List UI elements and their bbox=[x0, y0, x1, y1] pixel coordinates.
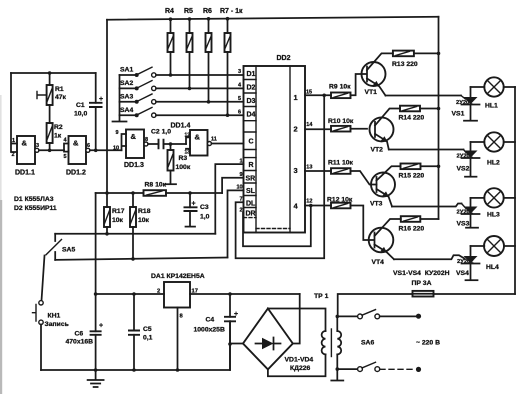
wire +5V top rail bbox=[107, 17, 439, 20]
lamp HL4 bbox=[471, 236, 516, 271]
wire DD1.4 out to DD2 C pin bbox=[212, 143, 244, 145]
svg-text:DA1 КР142ЕН5А: DA1 КР142ЕН5А bbox=[151, 273, 205, 280]
transistor VT4 bbox=[369, 219, 401, 266]
pushbutton KH1 Запись bbox=[33, 301, 69, 370]
svg-text:47к: 47к bbox=[55, 94, 67, 101]
svg-text:DD2: DD2 bbox=[277, 55, 291, 62]
svg-text:R14 220: R14 220 bbox=[399, 115, 425, 122]
svg-text:R7 - 1к: R7 - 1к bbox=[220, 8, 243, 15]
transistor VT1 bbox=[362, 53, 393, 96]
svg-text:С4: С4 bbox=[206, 317, 215, 324]
wire oscillator top rail bbox=[11, 72, 96, 74]
resistor R14 bbox=[399, 106, 441, 122]
svg-text:SA1: SA1 bbox=[120, 67, 133, 74]
svg-text:R15 220: R15 220 bbox=[399, 173, 425, 180]
svg-text:HL1: HL1 bbox=[485, 103, 498, 110]
svg-text:D2: D2 bbox=[247, 85, 256, 92]
svg-text:R: R bbox=[249, 162, 254, 169]
svg-text:R10 10к: R10 10к bbox=[328, 118, 354, 125]
svg-text:R11 10к: R11 10к bbox=[328, 160, 354, 167]
resistor R4 bbox=[165, 8, 174, 75]
resistor R12 bbox=[327, 197, 374, 241]
ground SA1-SA4 bbox=[113, 121, 127, 123]
gate DD1.2 bbox=[64, 136, 91, 177]
capacitor C2 bbox=[148, 129, 186, 150]
switch SA1 bbox=[120, 67, 244, 78]
wire DD2 output 1 row bbox=[305, 94, 331, 96]
wire DD2 output 4 row bbox=[305, 205, 331, 207]
svg-text:SL: SL bbox=[246, 188, 256, 195]
transistor VT2 bbox=[370, 109, 401, 154]
scan edge smudge bbox=[0, 200, 2, 394]
svg-text:R1: R1 bbox=[55, 86, 64, 93]
svg-text:R4: R4 bbox=[165, 8, 174, 15]
svg-text:R3: R3 bbox=[179, 155, 188, 162]
svg-text:1: 1 bbox=[294, 93, 298, 102]
svg-text:&: & bbox=[131, 132, 137, 141]
wire ground bus bbox=[41, 321, 230, 370]
node rail junctions bbox=[169, 17, 173, 21]
svg-text:DD1.2: DD1.2 bbox=[66, 170, 86, 177]
svg-text:R9 10к: R9 10к bbox=[329, 84, 351, 91]
svg-text:DD1.3: DD1.3 bbox=[124, 162, 144, 169]
svg-text:5: 5 bbox=[64, 154, 67, 160]
svg-text:11: 11 bbox=[211, 137, 217, 143]
svg-text:С3: С3 bbox=[200, 204, 209, 211]
wire DD1.1 input drop bbox=[11, 73, 17, 152]
regulator DA1 КР142ЕН5А bbox=[96, 273, 300, 372]
wire +5V column from DA1 bbox=[95, 193, 97, 331]
capacitor C3 bbox=[184, 193, 210, 227]
svg-text:6: 6 bbox=[238, 110, 241, 116]
svg-text:Запись: Запись bbox=[45, 321, 69, 328]
wire SL line (to SA5) bbox=[55, 258, 227, 260]
svg-text:VS4: VS4 bbox=[456, 270, 469, 277]
wire DD2 SR pin bbox=[222, 178, 243, 193]
svg-text:10к: 10к bbox=[138, 217, 150, 224]
svg-text:D1 К555ЛА3: D1 К555ЛА3 bbox=[14, 196, 54, 203]
svg-text:8: 8 bbox=[145, 137, 148, 143]
wire mains top line with fuse bbox=[338, 294, 515, 316]
svg-text:SA2: SA2 bbox=[120, 80, 133, 87]
svg-text:VS3: VS3 bbox=[457, 221, 470, 228]
wire R line (to SA5) bbox=[55, 233, 215, 235]
svg-text:DD1.4: DD1.4 bbox=[171, 123, 191, 130]
thyristor VS2 bbox=[457, 142, 480, 177]
svg-text:VD1-VD4: VD1-VD4 bbox=[285, 357, 314, 364]
wire SA common bbox=[119, 75, 121, 121]
wire DD1.2 out to DD1.3 in bbox=[90, 149, 122, 151]
wire VT1 emitter to VS1 gate bbox=[386, 95, 462, 97]
svg-text:С1: С1 bbox=[76, 102, 85, 109]
resistor R5 bbox=[184, 8, 193, 88]
svg-text:R17: R17 bbox=[112, 208, 125, 215]
svg-text:R16 220: R16 220 bbox=[399, 226, 425, 233]
svg-text:SR: SR bbox=[246, 176, 256, 183]
resistor R10 bbox=[328, 118, 367, 132]
gate DD1.1 bbox=[15, 136, 39, 177]
svg-text:КД226: КД226 bbox=[290, 365, 311, 372]
resistor R13 bbox=[392, 51, 440, 68]
svg-text:С6: С6 bbox=[75, 331, 84, 338]
bridge rectifier VD1-VD4 bbox=[230, 294, 313, 372]
svg-text:SA6: SA6 bbox=[361, 340, 374, 347]
switch SA2 bbox=[120, 80, 244, 91]
transistor VT3 bbox=[370, 166, 401, 207]
svg-text:9: 9 bbox=[116, 130, 119, 136]
svg-text:C: C bbox=[249, 139, 254, 146]
resistor R8 bbox=[96, 182, 223, 196]
svg-text:10: 10 bbox=[113, 146, 119, 152]
wire collector supply bus bbox=[438, 17, 440, 219]
svg-text:R6: R6 bbox=[203, 8, 212, 15]
svg-text:VS2: VS2 bbox=[457, 166, 470, 173]
svg-text:DR: DR bbox=[246, 211, 256, 218]
svg-text:VS1: VS1 bbox=[452, 111, 465, 118]
svg-text:5: 5 bbox=[238, 96, 241, 102]
thyristor VS4 bbox=[456, 246, 480, 280]
svg-text:6: 6 bbox=[87, 143, 90, 149]
resistor R15 bbox=[399, 164, 441, 180]
svg-text:DD1.1: DD1.1 bbox=[15, 170, 35, 177]
wire DD2 SL pin bbox=[228, 190, 244, 257]
switch SA6 lower pole bbox=[337, 362, 421, 372]
svg-text:100к: 100к bbox=[176, 164, 191, 171]
svg-text:HL2: HL2 bbox=[487, 160, 500, 167]
wire DD2 output 2 row bbox=[305, 128, 331, 130]
svg-text:VS1-VS4 КУ202Н: VS1-VS4 КУ202Н bbox=[393, 270, 450, 277]
switch SA4 bbox=[120, 107, 244, 117]
svg-text:+: + bbox=[99, 323, 103, 330]
svg-text:D2 К555ИР11: D2 К555ИР11 bbox=[14, 205, 57, 212]
switch SA6 upper pole bbox=[337, 310, 421, 347]
wire +5V left drop (rail to R17 column) bbox=[106, 20, 108, 193]
gate DD1.3 bbox=[113, 130, 148, 170]
svg-text:0,1: 0,1 bbox=[143, 335, 153, 342]
svg-text:HL3: HL3 bbox=[487, 212, 500, 219]
resistor R9 bbox=[329, 74, 367, 98]
wire lamp right bus bbox=[514, 87, 516, 294]
svg-text:С5: С5 bbox=[143, 326, 152, 333]
svg-text:1: 1 bbox=[12, 138, 15, 144]
resistor R7 bbox=[220, 8, 243, 115]
svg-text:12: 12 bbox=[306, 199, 312, 205]
svg-text:VT3: VT3 bbox=[370, 201, 383, 208]
svg-text:3: 3 bbox=[294, 166, 298, 175]
svg-text:3: 3 bbox=[238, 69, 241, 75]
thyristor VS1 bbox=[452, 87, 480, 121]
transformer TP1 bbox=[268, 293, 343, 381]
svg-text:2: 2 bbox=[12, 152, 15, 158]
wire VT4 emitter to VS4 gate bbox=[394, 255, 465, 259]
svg-text:1к: 1к bbox=[54, 133, 62, 140]
wire VT2 emitter to VS2 gate bbox=[389, 149, 464, 151]
resistor R3 bbox=[166, 144, 191, 184]
switch SA3 bbox=[120, 94, 244, 105]
IC DD2 К555ИР11 bbox=[237, 55, 314, 233]
lamp HL2 bbox=[471, 132, 516, 166]
resistor R17 bbox=[104, 193, 125, 236]
svg-text:ТР 1: ТР 1 bbox=[314, 293, 329, 300]
svg-text:КН1: КН1 bbox=[48, 313, 61, 320]
svg-text:13: 13 bbox=[306, 165, 312, 171]
svg-text:10,0: 10,0 bbox=[74, 111, 87, 118]
svg-text:D4: D4 bbox=[247, 112, 256, 119]
capacitor C4 bbox=[194, 292, 239, 370]
ground main bbox=[88, 370, 104, 387]
svg-text:470х16В: 470х16В bbox=[66, 339, 94, 346]
svg-text:3: 3 bbox=[36, 143, 39, 149]
svg-text:R5: R5 bbox=[184, 8, 193, 15]
wire DD2 R pin bbox=[215, 164, 243, 234]
svg-text:VT1: VT1 bbox=[365, 89, 378, 96]
svg-text:2: 2 bbox=[294, 125, 298, 134]
fuse ПР 3А bbox=[412, 280, 434, 297]
svg-text:R2: R2 bbox=[54, 124, 63, 131]
svg-text:SA5: SA5 bbox=[62, 247, 75, 254]
svg-text:14: 14 bbox=[306, 122, 313, 128]
svg-text:2: 2 bbox=[240, 208, 243, 214]
gate DD1.4 bbox=[171, 123, 217, 156]
svg-text:DL: DL bbox=[246, 201, 256, 208]
resistor R16 bbox=[399, 216, 439, 232]
wire DD2 DR pin feedback to output 4 bbox=[243, 206, 311, 247]
wire VT3 emitter to VS3 gate bbox=[392, 204, 462, 207]
svg-text:С2 1,0: С2 1,0 bbox=[151, 129, 171, 136]
lamp HL1 bbox=[471, 77, 516, 109]
switch SA5 bbox=[42, 234, 76, 301]
resistor R18 bbox=[130, 193, 151, 261]
resistor R1 (preset) bbox=[37, 71, 67, 123]
svg-text:&: & bbox=[195, 133, 201, 142]
capacitor C6 bbox=[66, 323, 104, 372]
svg-text:12: 12 bbox=[185, 133, 191, 139]
svg-text:D3: D3 bbox=[247, 98, 256, 105]
capacitor C5 bbox=[128, 292, 153, 372]
svg-text:&: & bbox=[73, 139, 79, 148]
svg-text:VT2: VT2 bbox=[371, 147, 384, 154]
svg-text:HL4: HL4 bbox=[486, 264, 499, 271]
svg-text:VT4: VT4 bbox=[372, 259, 385, 266]
lamp HL3 bbox=[471, 188, 516, 218]
svg-text:10к: 10к bbox=[112, 217, 124, 224]
resistor R2 bbox=[47, 123, 63, 152]
resistor R11 bbox=[328, 160, 377, 185]
svg-text:R8 10к: R8 10к bbox=[145, 182, 167, 189]
svg-text:SA4: SA4 bbox=[120, 107, 133, 114]
wire DD1.1 out to DD1.2 in bbox=[39, 149, 64, 151]
resistor R6 bbox=[203, 8, 212, 102]
svg-text:ПР 3А: ПР 3А bbox=[412, 280, 432, 287]
svg-text:1000х25В: 1000х25В bbox=[194, 327, 225, 334]
wire DD2 DL pin feedback to output 1 bbox=[236, 95, 325, 258]
svg-text:R18: R18 bbox=[138, 208, 151, 215]
thyristor VS3 bbox=[457, 198, 480, 228]
svg-text:13: 13 bbox=[185, 150, 191, 156]
svg-text:~ 220 В: ~ 220 В bbox=[416, 340, 440, 347]
wire DD2 output 3 row bbox=[305, 170, 331, 172]
svg-text:R13 220: R13 220 bbox=[392, 61, 418, 68]
svg-text:D1: D1 bbox=[247, 71, 256, 78]
svg-text:&: & bbox=[22, 139, 28, 148]
capacitor C1 bbox=[74, 73, 103, 152]
svg-text:SA3: SA3 bbox=[120, 94, 133, 101]
svg-text:1,0: 1,0 bbox=[200, 214, 210, 221]
